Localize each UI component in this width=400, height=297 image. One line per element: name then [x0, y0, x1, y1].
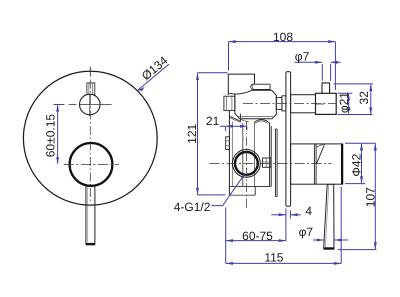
vertical centerline [89, 80, 91, 204]
4 arrows [279, 213, 286, 216]
dimension 107 [374, 144, 376, 249]
top plug cylinder on diverter body [255, 83, 270, 85]
port connector [263, 158, 271, 167]
diverter stem sleeve right of plate [291, 95, 316, 113]
lever handle (front) [86, 186, 95, 244]
flange bump under diverter body left [240, 119, 249, 122]
horizontal centerline of hub [64, 163, 119, 165]
svg-text:21: 21 [206, 114, 220, 128]
107 arrows [374, 143, 377, 150]
diverter knob stem rectangle [87, 83, 95, 95]
108 arrows [229, 40, 236, 43]
svg-text:φ7: φ7 [295, 50, 310, 64]
cylinder end face (thick) [341, 144, 343, 184]
21 arrows [226, 125, 233, 128]
dimension 121 [198, 72, 228, 74]
diverter neck to plate [276, 97, 282, 109]
Ø21 arrows [347, 93, 350, 100]
dimension Ø21 [338, 92, 353, 94]
svg-text:4-G1/2: 4-G1/2 [174, 200, 211, 214]
check valve cap (left) [224, 96, 235, 110]
handle hub circle [70, 143, 113, 186]
leader 4-G1/2 [212, 174, 245, 206]
32 arrows [369, 84, 372, 91]
cartridge port inner circle G1/2 [235, 152, 258, 175]
svg-text:4: 4 [305, 204, 312, 218]
wall plate (escutcheon side) [286, 72, 291, 207]
dimension Φ42 [345, 142, 376, 144]
svg-text:108: 108 [273, 30, 293, 44]
115 arrows [226, 262, 233, 265]
vertical centerline through port [245, 121, 247, 208]
svg-text:Φ42: Φ42 [350, 153, 364, 176]
arrowheads [196, 40, 377, 265]
mixer body block [228, 111, 230, 195]
dimension Ø134 leader [138, 64, 169, 90]
Φ42 arrows [360, 143, 363, 150]
dimension 108 [229, 41, 336, 43]
svg-text:115: 115 [264, 250, 283, 264]
neck arc bump right [254, 120, 269, 123]
inlet bracket left [226, 137, 230, 150]
lever handle rod (side) [324, 184, 334, 247]
svg-text:60±0.15: 60±0.15 [44, 114, 58, 158]
escutcheon plate circle Ø134 [23, 71, 157, 205]
diverter body block [235, 90, 276, 119]
centerline through diverter [243, 103, 336, 105]
dimension 4 [271, 214, 286, 216]
dimension 32 [334, 83, 374, 85]
svg-text:φ21: φ21 [337, 92, 351, 113]
svg-text:107: 107 [364, 187, 378, 207]
upper inlet elbow [228, 74, 254, 95]
Ø7 bottom arrows [317, 239, 324, 242]
cartridge port outer circle [233, 150, 261, 178]
mixer cylinder (behind wall plate to right) [291, 144, 343, 184]
Ø7 top arrows [315, 61, 322, 64]
60-75 arrows [226, 239, 233, 242]
svg-text:32: 32 [357, 91, 371, 105]
diverter knob circle [80, 94, 101, 115]
diverter knob body Ø21 [316, 93, 337, 114]
horizontal centerline through port [210, 163, 332, 165]
rod end cap [323, 248, 334, 250]
mounting sleeve lines [274, 129, 276, 197]
dimension 115 [226, 262, 342, 264]
centerline tick at circle top [89, 67, 91, 77]
dimension Ø7 bottom [313, 239, 324, 241]
svg-text:60-75: 60-75 [242, 229, 273, 243]
handle end cap [86, 243, 96, 245]
svg-text:121: 121 [185, 123, 199, 143]
horizontal centerline of knob circle [69, 104, 77, 106]
lever hub chamfer [317, 144, 325, 163]
dimension 60±0.15 [54, 105, 65, 164]
dimension 60-75 [226, 240, 286, 242]
121 arrows [196, 73, 199, 80]
svg-text:φ7: φ7 [299, 225, 314, 239]
diverter knob Ø7 [322, 83, 330, 94]
dimension 21 [220, 125, 247, 127]
flange line inside diverter body [239, 116, 274, 118]
dimension Ø7 top [295, 61, 323, 63]
